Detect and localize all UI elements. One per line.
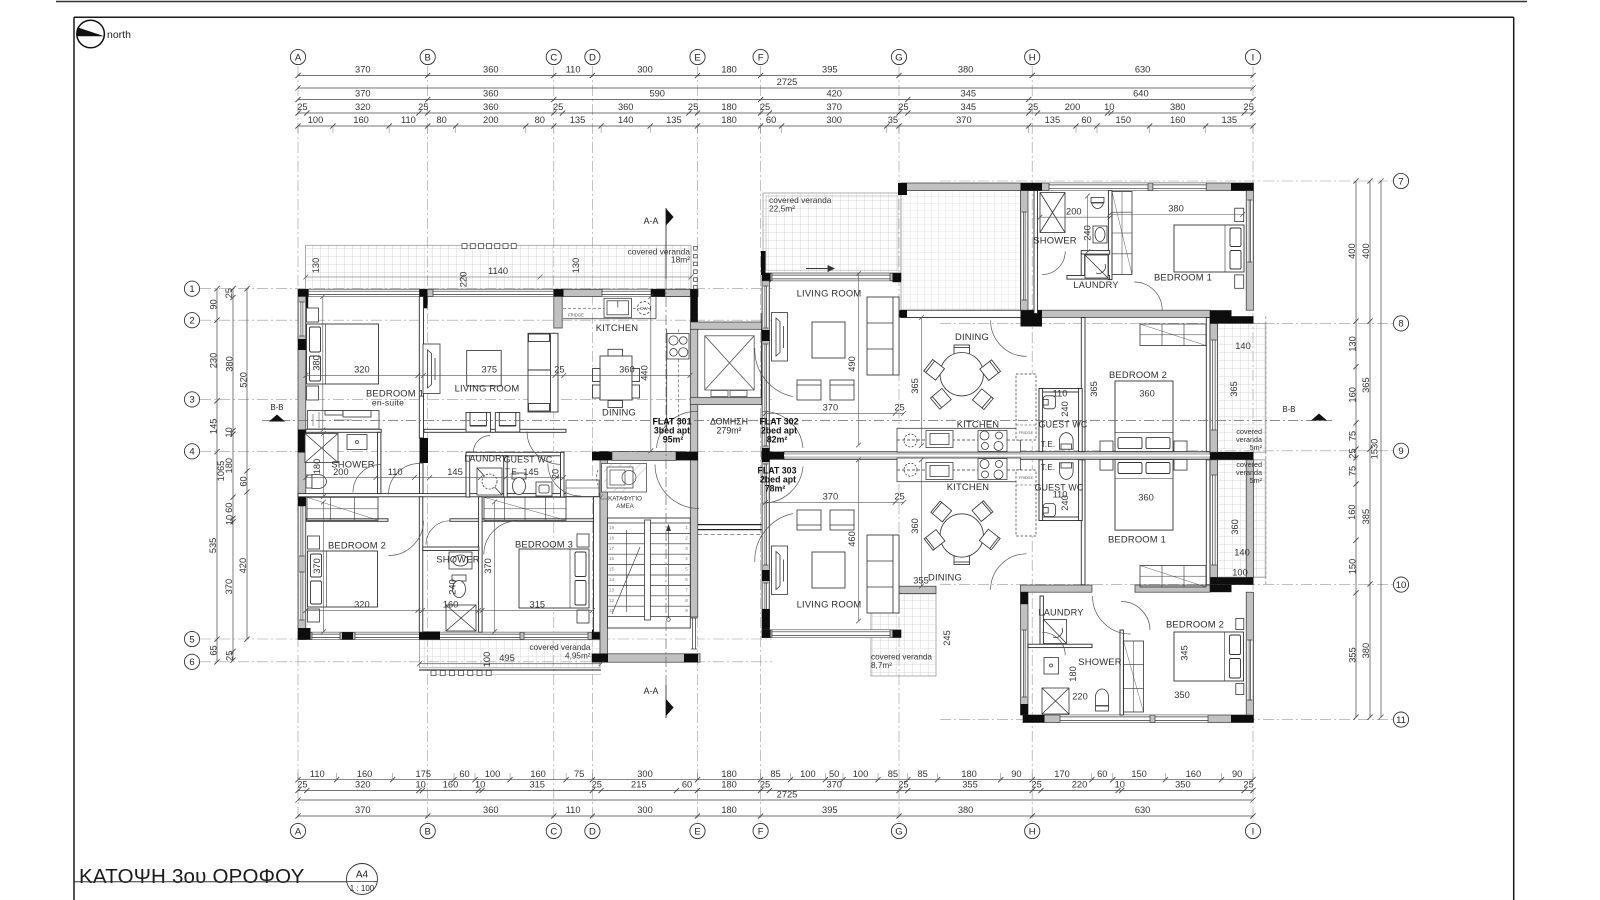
svg-text:365: 365 (910, 378, 920, 394)
svg-text:160: 160 (530, 769, 546, 779)
bedroom1-303 east window (1211, 475, 1217, 565)
svg-text:180: 180 (961, 769, 977, 779)
right overall dim 1530 (1378, 178, 1383, 719)
svg-text:25: 25 (592, 780, 602, 790)
scale stamp A4 1:100 (347, 864, 378, 895)
wheelchair refuge symbol (597, 464, 647, 500)
svg-text:245: 245 (942, 630, 952, 646)
svg-text:25: 25 (760, 102, 770, 112)
svg-text:SHOWER: SHOWER (1033, 235, 1076, 246)
title underline (74, 881, 347, 883)
wing south window 1 (1060, 715, 1150, 722)
covered veranda 5m2 area flat302 (1218, 324, 1266, 453)
svg-text:19: 19 (609, 525, 615, 530)
svg-text:SHOWER: SHOWER (436, 554, 479, 565)
wall bedroom1 south (306, 429, 381, 432)
svg-text:160: 160 (1186, 769, 1202, 779)
svg-text:180: 180 (1068, 666, 1078, 682)
svg-text:50: 50 (829, 769, 839, 779)
door corridor303 (755, 514, 793, 562)
dim line veranda 495 (417, 661, 603, 666)
wall wardrobe band bedroom2 (306, 519, 388, 522)
guestwc303 basin (1043, 504, 1055, 517)
svg-text:320: 320 (355, 102, 371, 112)
svg-text:85: 85 (770, 769, 780, 779)
fridge 302 tall cabinet (1016, 374, 1036, 440)
svg-text:175: 175 (416, 769, 432, 779)
grid line column B (427, 66, 429, 822)
bedside 302a (1235, 208, 1244, 221)
bedside b2-303b (1236, 684, 1244, 695)
svg-text:370: 370 (826, 102, 842, 112)
door living-hall 301 (527, 432, 560, 465)
svg-text:360: 360 (483, 89, 499, 99)
column stair SW (592, 654, 608, 662)
svg-text:15: 15 (609, 567, 615, 572)
dim 440 kitchen (648, 294, 653, 453)
coffee table 303 (812, 552, 845, 588)
svg-text:135: 135 (666, 115, 682, 125)
guestwc302 east wall (1079, 389, 1083, 452)
svg-text:365: 365 (1361, 377, 1371, 393)
flat303 west wall black (762, 609, 770, 628)
column C1 (554, 289, 564, 296)
living303 south wall (762, 630, 901, 638)
svg-text:365: 365 (1089, 381, 1099, 397)
svg-text:380: 380 (224, 356, 234, 372)
south window 1 (312, 632, 340, 639)
party wall cavity line (784, 455, 1210, 457)
grid line row 11 (940, 719, 1393, 721)
svg-text:320: 320 (355, 780, 371, 790)
tv unit living303 (772, 546, 788, 595)
svg-text:25: 25 (554, 365, 564, 375)
section A-A top flag (666, 209, 674, 226)
svg-text:370: 370 (355, 89, 371, 99)
svg-text:100: 100 (482, 652, 492, 668)
door bedroom1-301 corridor (389, 464, 420, 495)
grid line column C (553, 66, 555, 822)
grid bubble C bottom (546, 823, 561, 838)
wall bedroom3 east (594, 497, 601, 632)
guestwc301 toilet (512, 473, 526, 495)
section A-A line top (665, 208, 667, 279)
svg-text:BEDROOM 3: BEDROOM 3 (515, 539, 573, 550)
svg-text:2: 2 (189, 316, 194, 327)
grid line row 1 (200, 288, 772, 290)
svg-text:25: 25 (553, 102, 563, 112)
grid line row 4 (200, 450, 772, 452)
svg-text:360: 360 (483, 102, 499, 112)
svg-text:ΚΑΤΟΨΗ 3ου ΟΡΟΦΟΥ: ΚΑΤΟΨΗ 3ου ΟΡΟΦΟΥ (79, 865, 305, 888)
bedroom2 west window 1 (299, 506, 304, 556)
bedside table bedroom1 b (307, 386, 319, 400)
bed bedroom1-302 (1174, 225, 1244, 272)
wing west wall 303 (1021, 592, 1029, 715)
svg-text:80: 80 (437, 115, 447, 125)
covered veranda 18m2 area (306, 245, 692, 289)
bedroom1 north window (1153, 183, 1206, 190)
kitchen north wall segment (665, 289, 690, 296)
svg-text:25: 25 (1243, 102, 1253, 112)
grid line row 9 (940, 450, 1393, 452)
wall laundry/guestwc (504, 456, 508, 497)
grid bubble I bottom (1245, 823, 1260, 838)
core east wall 302 (1108, 191, 1112, 280)
covered veranda 4.95m2 area (420, 640, 601, 668)
svg-text:BEDROOM 1: BEDROOM 1 (1154, 272, 1212, 283)
covered veranda 22.5m2 area (763, 193, 901, 273)
svg-text:7: 7 (1398, 176, 1403, 187)
laundry301 washing machine (477, 468, 502, 495)
svg-text:KITCHEN: KITCHEN (596, 322, 639, 333)
dim line living302 (763, 411, 906, 416)
svg-text:FRIDGE: FRIDGE (1019, 431, 1034, 435)
bedroom1-302 east wall (1246, 191, 1253, 311)
svg-text:380: 380 (311, 355, 321, 371)
svg-text:360: 360 (483, 805, 499, 815)
svg-text:10: 10 (224, 427, 234, 437)
svg-text:16: 16 (609, 556, 615, 561)
veranda 8.7 north wall (871, 586, 936, 593)
wardrobe bedroom2 (307, 497, 378, 520)
bottom overall dim 2725 (295, 797, 1255, 802)
svg-text:BEDROOM 1: BEDROOM 1 (1108, 534, 1166, 545)
svg-text:2725: 2725 (777, 77, 798, 87)
armchairs 302 (797, 380, 854, 400)
svg-text:130: 130 (311, 258, 321, 274)
wall black segment 303 (1210, 585, 1232, 592)
dim line bedrooms row (303, 373, 692, 378)
svg-text:100: 100 (853, 769, 869, 779)
svg-text:150: 150 (1347, 559, 1357, 575)
door hall-kitchen 301 (548, 464, 581, 497)
svg-text:I: I (1252, 826, 1255, 837)
dim line shower302 (1038, 215, 1113, 220)
svg-text:1140: 1140 (488, 266, 508, 276)
section A-A bottom flag (666, 699, 674, 716)
guestwc303 west wall (1039, 460, 1043, 521)
svg-text:220: 220 (459, 272, 469, 288)
svg-text:25: 25 (224, 651, 234, 661)
svg-text:520: 520 (238, 372, 248, 388)
svg-text:1 : 100: 1 : 100 (350, 884, 375, 893)
svg-text:350: 350 (1175, 780, 1191, 790)
svg-text:DW: DW (640, 306, 648, 311)
living303 west window 1 (763, 464, 768, 565)
svg-text:10: 10 (224, 515, 234, 525)
grid bubble C top (546, 49, 561, 64)
wall ensuite east (378, 432, 381, 493)
svg-text:360: 360 (619, 365, 635, 375)
stair top wall (612, 452, 676, 461)
grid line column I (1252, 66, 1254, 822)
svg-text:2725: 2725 (777, 790, 798, 800)
right block north wall (901, 183, 1254, 191)
window sill ticks top veranda (462, 244, 516, 249)
wall bedroom1/living (419, 297, 423, 439)
guestwc303 toilet (1060, 463, 1074, 480)
grid line column D (591, 66, 593, 822)
living room north window (433, 290, 554, 297)
guestwc303 south wall (1039, 517, 1082, 521)
tv unit living302 (772, 313, 788, 362)
coffee table 302 (812, 322, 845, 358)
door shower303 (1042, 632, 1065, 655)
svg-text:B: B (425, 52, 431, 63)
living302 west window 2 (763, 344, 768, 446)
svg-text:82m²: 82m² (767, 435, 788, 445)
grid bubble row 11 (1393, 712, 1408, 727)
grid bubble B top (420, 49, 435, 64)
column stair N black west (592, 452, 612, 461)
svg-text:490: 490 (847, 356, 857, 372)
svg-text:180: 180 (224, 458, 234, 474)
column N1 (1021, 183, 1043, 191)
svg-text:180: 180 (721, 780, 737, 790)
bottom dim chain spans A-I (295, 813, 1255, 818)
door shower vestibule (426, 521, 450, 545)
left block west wall (298, 297, 306, 640)
svg-text:145: 145 (523, 467, 539, 477)
svg-text:LIVING ROOM: LIVING ROOM (455, 383, 520, 394)
grid bubble row 9 (1393, 443, 1408, 458)
fridge 303 divider (1016, 484, 1036, 486)
armchairs 303 (797, 510, 854, 530)
wardrobe bedroom2-302 (1140, 324, 1206, 346)
bedside b2-302a (1100, 441, 1113, 452)
svg-text:T.E.: T.E. (1041, 463, 1056, 472)
laundry302 washing machine (1085, 255, 1108, 278)
svg-text:365: 365 (1229, 381, 1239, 397)
svg-text:78m²: 78m² (765, 484, 786, 494)
grid bubble E bottom (690, 823, 705, 838)
shower302 basin (1093, 226, 1107, 243)
svg-text:180: 180 (721, 115, 737, 125)
svg-text:110: 110 (310, 769, 325, 779)
wall living/kitchen stub (554, 297, 562, 329)
svg-text:110: 110 (1053, 389, 1068, 399)
grid bubble H top (1025, 49, 1040, 64)
dim line bedroom1-302 (1107, 212, 1245, 217)
sheet top edge line (56, 1, 1527, 3)
grid line row 8 (940, 322, 1393, 324)
shower301 tray (446, 605, 476, 631)
column stair SE (684, 654, 698, 662)
svg-text:360: 360 (1230, 519, 1240, 535)
svg-text:T.E.: T.E. (505, 468, 520, 477)
bed bedroom3 (519, 549, 589, 608)
dim line corridor row (303, 475, 565, 480)
svg-text:G: G (895, 826, 902, 837)
grid line column G (898, 66, 900, 822)
svg-text:535: 535 (208, 538, 218, 554)
dim line bedrooms 2-3 (303, 608, 594, 613)
svg-text:DINING: DINING (928, 572, 962, 583)
grid line row 2 (200, 319, 772, 321)
svg-text:25: 25 (898, 102, 908, 112)
shower303 basin (1044, 658, 1059, 675)
living303 west window 2 (763, 583, 768, 625)
right block west wall (762, 281, 770, 638)
fridge 302 divider (1016, 424, 1036, 426)
guestwc302 north wall (1039, 389, 1082, 393)
guestwc303 east wall (1079, 460, 1083, 521)
core east wall 303 (1120, 630, 1123, 715)
bedroom2-303 east wall (1246, 592, 1253, 715)
svg-text:240: 240 (447, 579, 457, 595)
dim 360 dining303 (919, 457, 924, 588)
bottom dim extension stubs (298, 773, 1253, 780)
kitchen counter 301 (563, 297, 689, 429)
living302 north window (772, 273, 890, 280)
bedroom1-303 east wall veranda side (1246, 460, 1253, 578)
dresser bedroom1 (308, 411, 380, 430)
svg-text:180: 180 (721, 102, 737, 112)
svg-text:B-B: B-B (1283, 405, 1296, 414)
svg-text:4,95m²: 4,95m² (565, 652, 591, 661)
svg-text:T.E.: T.E. (1041, 440, 1056, 449)
ensuite washbasin (347, 435, 367, 450)
svg-text:320: 320 (354, 365, 370, 375)
grid bubble D bottom (585, 823, 600, 838)
bedroom2-302 west wall (1081, 318, 1085, 452)
svg-text:KITCHEN: KITCHEN (957, 419, 1000, 430)
door corridor302 (755, 348, 793, 397)
column LV1 (762, 273, 771, 282)
svg-text:100: 100 (800, 769, 816, 779)
party wall black west (761, 452, 784, 460)
corridor bridge wall (698, 525, 762, 535)
svg-text:150: 150 (1131, 769, 1147, 779)
svg-text:25: 25 (418, 102, 428, 112)
dim 490 living302 (856, 271, 861, 447)
svg-text:ΚΑΤΑΦΥΓΙΟ: ΚΑΤΑΦΥΓΙΟ (608, 496, 642, 503)
column A2 (298, 339, 306, 350)
elevator cab (705, 336, 754, 397)
door stairwell (655, 465, 699, 509)
svg-text:LIVING ROOM: LIVING ROOM (797, 288, 862, 299)
section B-B dash line (262, 420, 1332, 422)
svg-text:85: 85 (918, 769, 928, 779)
bedside bedroom2 a (308, 536, 320, 549)
svg-text:240: 240 (1060, 495, 1070, 511)
dim 365 dining302 (919, 315, 924, 448)
door bedroom1-302 (1134, 282, 1162, 310)
svg-text:220: 220 (1072, 692, 1088, 702)
svg-text:A4: A4 (356, 870, 369, 881)
shower303 toilet (1096, 689, 1109, 711)
grid bubble H bottom (1025, 823, 1040, 838)
bedroom1 north window (309, 290, 420, 297)
svg-text:F: F (758, 826, 764, 837)
svg-text:315: 315 (530, 600, 546, 610)
bedroom1-303 west wall (1081, 460, 1085, 585)
sofa living303 (867, 535, 899, 613)
svg-text:F: F (758, 52, 764, 63)
grid bubble row 10 (1393, 577, 1408, 592)
svg-text:ΑΜΕΑ: ΑΜΕΑ (616, 503, 634, 510)
wall laundry west (466, 452, 470, 497)
covered veranda 8.7m2 area (871, 594, 936, 676)
top dim chain spans A-I (295, 73, 1255, 78)
elevator west wall black upper (690, 289, 698, 332)
door laundry301 (473, 436, 490, 453)
svg-text:85: 85 (888, 769, 898, 779)
svg-text:355: 355 (913, 576, 929, 586)
svg-text:GUEST WC: GUEST WC (1039, 420, 1088, 430)
column A3 (298, 430, 306, 453)
svg-text:395: 395 (822, 805, 838, 815)
svg-text:6: 6 (189, 657, 194, 668)
grid bubble F bottom (753, 823, 768, 838)
svg-text:385: 385 (1361, 509, 1371, 525)
grid bubble row 3 (184, 392, 199, 407)
window sill ticks kitchen east (694, 247, 698, 290)
column N2 (1231, 183, 1254, 191)
svg-text:25: 25 (894, 403, 904, 413)
svg-text:GUEST WC: GUEST WC (504, 455, 553, 465)
hall cabinet line (566, 487, 599, 489)
bedroom2-303 east window (1247, 640, 1252, 700)
shower302 toilet (1091, 198, 1104, 209)
grid bubble G top (891, 49, 906, 64)
grid bubble row 7 (1393, 173, 1408, 188)
bedroom2 south window (355, 632, 422, 639)
right dim chain inner (1353, 178, 1358, 719)
svg-text:A: A (295, 826, 302, 837)
svg-text:300: 300 (637, 65, 653, 75)
svg-text:I: I (1252, 52, 1255, 63)
column B1 (420, 289, 428, 308)
column LV2 (893, 273, 902, 282)
column E1 (651, 289, 665, 296)
column W3 (762, 448, 770, 462)
svg-text:25: 25 (224, 288, 234, 298)
grid line column A (297, 66, 299, 822)
frame top border (74, 16, 1514, 18)
north arrow symbol (77, 20, 105, 48)
svg-text:590: 590 (649, 89, 665, 99)
svg-text:A-A: A-A (644, 686, 659, 696)
wall bedroom1/bedroom2 302 (1034, 310, 1210, 317)
svg-text:75: 75 (1347, 466, 1357, 476)
laundry west wall 302 (1081, 254, 1085, 279)
svg-text:240: 240 (1082, 225, 1092, 241)
column S3 (419, 632, 440, 640)
svg-text:145: 145 (447, 467, 463, 477)
svg-text:110: 110 (388, 467, 403, 477)
left block north wall (298, 289, 698, 296)
svg-text:E: E (694, 826, 700, 837)
svg-text:en-suite: en-suite (372, 398, 404, 408)
svg-text:8,7m²: 8,7m² (871, 661, 892, 670)
svg-text:200: 200 (1065, 102, 1081, 112)
top dim extension stubs (298, 126, 1253, 133)
laundry south wall 302 (1067, 276, 1110, 280)
svg-text:13: 13 (609, 587, 615, 592)
svg-text:north: north (107, 29, 131, 41)
svg-text:345: 345 (961, 89, 977, 99)
svg-text:140: 140 (1235, 341, 1251, 351)
svg-text:60: 60 (1097, 769, 1107, 779)
veranda 4.95 outer thin edge (431, 674, 601, 676)
column W4 (762, 570, 770, 581)
svg-text:380: 380 (1361, 643, 1371, 659)
svg-text:75: 75 (574, 769, 584, 779)
svg-text:220: 220 (1072, 780, 1088, 790)
grid bubble row 5 (184, 631, 199, 646)
